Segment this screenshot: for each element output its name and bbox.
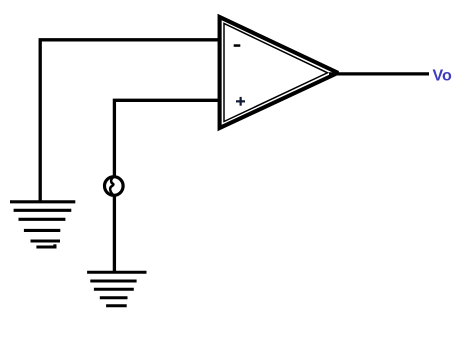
- svg-text:Vo: Vo: [433, 68, 452, 85]
